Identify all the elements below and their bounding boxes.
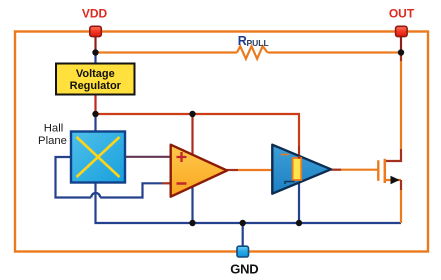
svg-text:Hall: Hall (44, 122, 63, 134)
wire OUT pin to junction (dark red) (400, 36, 402, 53)
svg-text:Voltage: Voltage (76, 68, 115, 80)
wire hop over ground wire (91, 193, 100, 198)
wire junction to voltage regulator top (navy segment) (94, 53, 96, 65)
label hall plane (38, 122, 67, 147)
schmitt trigger U2 comparator triangle (272, 145, 331, 194)
wire internal rail junction to hall plate top (navy) (94, 114, 96, 131)
junction ground at GND pin (240, 220, 246, 226)
wire hall plate ground drop and ground rail (96, 182, 402, 223)
hall plate element (71, 132, 125, 183)
transistor Q1 MOSFET gate bar (377, 160, 379, 181)
wire MOSFET source lead (385, 179, 402, 181)
junction below OUT (398, 49, 404, 55)
svg-text:GND: GND (230, 261, 258, 276)
wire VDD pin to pull-up junction (dark red segment) (94, 36, 96, 53)
pin OUT (396, 26, 408, 36)
junction rail at regulator output (92, 111, 98, 117)
wire hall right tap to amplifier non-inverting input (126, 156, 172, 158)
wire schmitt output to MOSFET gate (331, 169, 341, 171)
transistor Q1 channel bar (384, 159, 387, 183)
resistor R_PULL (237, 46, 268, 59)
wire voltage regulator bottom to internal rail (dark red) (94, 94, 96, 114)
wire OUT junction down to drain: red / orange / red segments (400, 53, 402, 62)
junction ground below schmitt (296, 220, 302, 226)
wire source down to ground rail (400, 180, 402, 190)
wire amplifier ground drop (191, 186, 193, 223)
wire rail tail inside schmitt trigger (298, 156, 300, 159)
junction below VDD (92, 49, 98, 55)
svg-text:Regulator: Regulator (70, 80, 122, 92)
op-amp A1 amplifier triangle (171, 145, 227, 197)
junction rail above amplifier (189, 111, 195, 117)
pin GND (237, 246, 249, 257)
svg-text:OUT: OUT (389, 7, 415, 21)
voltage regulator U1 (56, 64, 135, 95)
junction ground below amplifier (189, 220, 195, 226)
svg-text:R: R (238, 34, 247, 48)
wire internal VDD rail (96, 114, 300, 146)
wire schmitt ground drop (298, 181, 300, 223)
wire rail drop into amplifier (dark red) (191, 114, 193, 155)
svg-text:Plane: Plane (38, 135, 67, 147)
wire hall left tap loop to amplifier inverting input (56, 157, 163, 198)
svg-text:VDD: VDD (82, 7, 108, 21)
wire rail drop into schmitt (dark red under border) (298, 146, 300, 155)
wire red tip into inverting input (162, 182, 171, 184)
wire pull-up net from VDD node to OUT node (96, 51, 402, 53)
wire MOSFET source arrow (391, 176, 400, 185)
wire amplifier output to schmitt input (227, 169, 238, 171)
pin VDD (90, 26, 102, 36)
label R_PULL value (238, 34, 269, 48)
wire GND pin drop (242, 223, 244, 247)
svg-text:PULL: PULL (247, 38, 269, 48)
wire outer loop border (15, 32, 428, 252)
